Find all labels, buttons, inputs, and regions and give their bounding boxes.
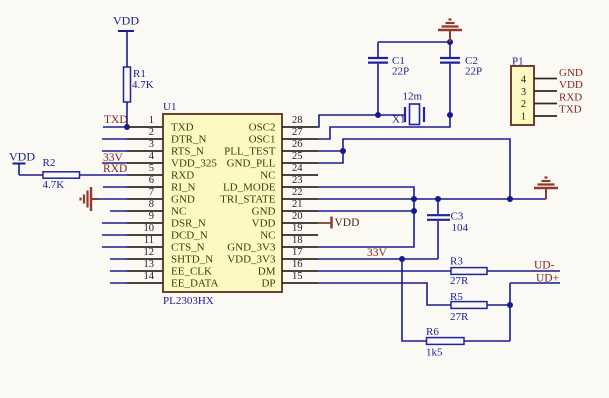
svg-text:RXD: RXD [103, 163, 127, 175]
wire R6 to UD+ riser [464, 340, 510, 342]
svg-text:VDD: VDD [252, 218, 276, 230]
wire pin17 VDD_3V3 [318, 258, 438, 260]
svg-text:C3: C3 [451, 211, 464, 223]
svg-text:3: 3 [149, 139, 154, 150]
svg-text:5: 5 [149, 163, 154, 174]
wire pin15 DP to R5 [318, 283, 451, 305]
svg-text:16: 16 [292, 259, 303, 270]
wire pin2 [102, 138, 127, 140]
wire pin28 OSC2 to crystal [318, 115, 405, 127]
wire pin17 junction to R6 [402, 259, 427, 341]
svg-text:22P: 22P [392, 66, 409, 78]
svg-text:7: 7 [149, 187, 154, 198]
wire pin1 [103, 126, 127, 128]
svg-text:27: 27 [292, 127, 303, 138]
wire pin4 [102, 162, 127, 164]
svg-text:TXD: TXD [559, 104, 582, 116]
svg-text:104: 104 [452, 222, 469, 234]
svg-text:11: 11 [144, 235, 154, 246]
P1 pin 1 [534, 115, 557, 117]
svg-text:NC: NC [260, 230, 275, 242]
svg-text:VDD_3V3: VDD_3V3 [227, 254, 276, 266]
svg-text:DM: DM [258, 266, 276, 278]
wire pin12 [110, 258, 127, 260]
svg-text:GND: GND [171, 194, 195, 206]
wire R3 to UD- [487, 270, 560, 272]
node junction 414/211 [411, 208, 417, 214]
ground (right) [534, 178, 558, 200]
ground (top) [438, 20, 462, 43]
wire pin14 [110, 282, 127, 284]
node junction 510/199 [507, 196, 513, 202]
power VDD port (pin20) [332, 217, 360, 230]
wire pin6 [103, 186, 127, 188]
P1 pin 3 [534, 90, 557, 92]
wire R5 to UD+ net [487, 304, 510, 306]
svg-text:OSC2: OSC2 [249, 122, 276, 134]
svg-text:9: 9 [149, 211, 154, 222]
pin names left column [171, 122, 218, 290]
svg-text:TRI_STATE: TRI_STATE [220, 194, 276, 206]
svg-text:GND: GND [252, 206, 276, 218]
wire pin11 [102, 246, 127, 248]
svg-text:12: 12 [144, 247, 155, 258]
pin names right column [220, 122, 276, 290]
svg-text:20: 20 [292, 211, 303, 222]
svg-text:VDD: VDD [559, 79, 583, 91]
svg-text:R3: R3 [450, 256, 463, 268]
node junction C3 top [435, 196, 441, 202]
svg-text:25: 25 [292, 151, 303, 162]
svg-text:22P: 22P [465, 66, 482, 78]
svg-text:1: 1 [521, 112, 526, 123]
svg-text:13: 13 [144, 259, 155, 270]
wire ground to pin7 [98, 198, 127, 200]
wire C1 top to C2 top [378, 41, 450, 43]
svg-text:EE_DATA: EE_DATA [171, 278, 218, 290]
wire pin23 LD_MODE riser to pin18 [318, 187, 414, 247]
svg-text:4: 4 [149, 151, 155, 162]
svg-text:4: 4 [521, 75, 527, 86]
svg-text:28: 28 [292, 115, 303, 126]
svg-text:UD-: UD- [534, 260, 555, 272]
svg-text:RXD: RXD [171, 170, 194, 182]
svg-text:U1: U1 [163, 101, 176, 113]
wire pin27 OSC1 to crystal right [318, 115, 450, 139]
svg-text:DSR_N: DSR_N [171, 218, 206, 230]
resistor R3 [450, 256, 487, 288]
svg-text:19: 19 [292, 223, 303, 234]
svg-text:P1: P1 [512, 56, 524, 68]
svg-text:R6: R6 [426, 326, 439, 338]
svg-text:CTS_N: CTS_N [171, 242, 205, 254]
wire pin13 [110, 270, 127, 272]
U1 right pins 28-15 [282, 127, 318, 283]
wire pin16 DM to R3 [318, 270, 451, 272]
svg-text:TXD: TXD [104, 114, 128, 126]
svg-text:EE_CLK: EE_CLK [171, 266, 212, 278]
resistor R5 [450, 291, 487, 323]
svg-text:R2: R2 [43, 157, 56, 169]
svg-text:VDD: VDD [9, 150, 35, 164]
U1 left pins 1-14 [127, 127, 163, 283]
svg-text:17: 17 [292, 247, 303, 258]
svg-text:X1: X1 [392, 114, 405, 126]
capacitor C1 [368, 42, 409, 115]
wire UD+ riser [509, 283, 511, 341]
svg-text:OSC1: OSC1 [249, 134, 276, 146]
wire pin8 [110, 210, 127, 212]
svg-text:LD_MODE: LD_MODE [223, 182, 276, 194]
wire pin25 GND_PLL riser to ground net [318, 139, 510, 199]
pin numbers right 28-15 [292, 115, 303, 282]
resistor R1 [124, 67, 154, 102]
svg-text:RI_N: RI_N [171, 182, 196, 194]
svg-text:GND: GND [559, 67, 583, 79]
svg-text:4.7K: 4.7K [43, 179, 65, 191]
svg-text:33V: 33V [367, 247, 388, 259]
svg-text:8: 8 [149, 199, 154, 210]
svg-text:R5: R5 [450, 291, 463, 303]
svg-text:DP: DP [261, 278, 275, 290]
svg-text:RTS_N: RTS_N [171, 146, 204, 158]
svg-text:21: 21 [292, 199, 303, 210]
node junction pin1/R1 [124, 124, 130, 130]
wire pin20 VDD [318, 222, 331, 224]
svg-text:VDD: VDD [113, 14, 139, 28]
P1 pin 2 [534, 103, 557, 105]
svg-text:22: 22 [292, 187, 303, 198]
node junction C2 bottom / OSC1 / crystal [447, 112, 453, 118]
node junction R5/UD+ [507, 302, 513, 308]
wire pin10 [102, 234, 127, 236]
svg-text:SHTD_N: SHTD_N [171, 254, 213, 266]
svg-text:VDD_325: VDD_325 [171, 158, 217, 170]
resistor R2 [43, 157, 80, 191]
svg-text:23: 23 [292, 175, 303, 186]
svg-text:2: 2 [521, 99, 526, 110]
svg-text:UD+: UD+ [536, 273, 559, 285]
svg-text:GND_3V3: GND_3V3 [227, 242, 276, 254]
svg-text:1k5: 1k5 [426, 347, 443, 359]
svg-text:DTR_N: DTR_N [171, 134, 207, 146]
capacitor C2 [440, 42, 482, 115]
svg-text:DCD_N: DCD_N [171, 230, 208, 242]
node junction pin17/R6 [399, 256, 405, 262]
ground (left, at pin7) [81, 187, 99, 211]
wire pin3 [102, 150, 127, 152]
node junction C1 bottom / OSC2 [375, 112, 381, 118]
svg-text:VDD: VDD [335, 217, 360, 229]
wire R1 to pin1 [126, 102, 128, 127]
svg-text:TXD: TXD [171, 122, 194, 134]
svg-text:RXD: RXD [559, 92, 582, 104]
node junction ground/C2 [447, 39, 453, 45]
svg-text:12m: 12m [403, 91, 423, 103]
svg-text:GND_PLL: GND_PLL [227, 158, 276, 170]
power VDD (top) [113, 14, 139, 68]
P1 pin numbers [521, 75, 527, 123]
connector P1 [511, 56, 534, 126]
svg-text:24: 24 [292, 163, 303, 174]
svg-text:1: 1 [149, 115, 154, 126]
svg-text:PLL_TEST: PLL_TEST [224, 146, 276, 158]
P1 pin 4 [534, 78, 557, 80]
wire VDD to R2 [19, 174, 43, 176]
svg-text:6: 6 [149, 175, 154, 186]
node junction 414/199 [411, 196, 417, 202]
pin numbers left 1-14 [144, 115, 155, 282]
svg-text:27R: 27R [450, 275, 469, 287]
wire R2 to pin5 [80, 174, 128, 176]
crystal X1 [392, 91, 424, 126]
svg-text:PL2303HX: PL2303HX [163, 295, 214, 307]
node junction pin26/pin25 [340, 148, 346, 154]
svg-text:NC: NC [171, 206, 186, 218]
svg-text:2: 2 [149, 127, 154, 138]
resistor R6 [426, 326, 464, 359]
op-amp U1 body PL2303HX [163, 101, 282, 307]
power VDD (left) [9, 150, 35, 176]
wire pin9 [102, 222, 127, 224]
capacitor C3 [427, 199, 469, 259]
svg-text:10: 10 [144, 223, 155, 234]
svg-text:15: 15 [292, 271, 303, 282]
svg-text:26: 26 [292, 139, 303, 150]
svg-text:3: 3 [521, 87, 526, 98]
svg-text:4.7K: 4.7K [132, 79, 154, 91]
wire pin22 TRI_STATE ground net [318, 198, 546, 200]
wire pin26 PLL_TEST [318, 150, 343, 152]
wire pin21 GND [318, 210, 414, 212]
svg-text:27R: 27R [450, 311, 469, 323]
wire UD+ [510, 282, 560, 284]
svg-text:14: 14 [144, 271, 155, 282]
svg-text:18: 18 [292, 235, 303, 246]
svg-text:NC: NC [260, 170, 275, 182]
